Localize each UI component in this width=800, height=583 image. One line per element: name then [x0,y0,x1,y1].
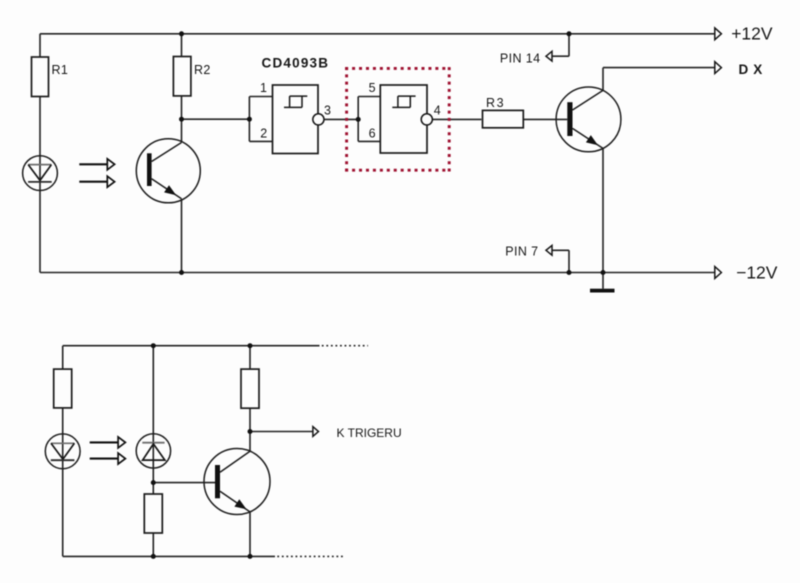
svg-text:−12V: −12V [736,262,778,282]
svg-text:6: 6 [369,127,376,141]
svg-text:4: 4 [434,103,441,117]
svg-text:R1: R1 [52,63,69,77]
svg-text:PIN 7: PIN 7 [505,244,538,258]
svg-text:2: 2 [260,127,267,141]
svg-text:DX: DX [739,62,768,77]
svg-text:PIN 14: PIN 14 [500,51,541,65]
svg-text:R2: R2 [194,63,211,77]
svg-text:3: 3 [324,104,331,118]
svg-text:1: 1 [260,81,267,95]
svg-text:R3: R3 [486,96,505,110]
svg-text:K TRIGERU: K TRIGERU [337,426,402,440]
svg-text:5: 5 [369,81,376,95]
svg-text:CD4093B: CD4093B [262,56,330,71]
svg-text:+12V: +12V [731,24,773,44]
